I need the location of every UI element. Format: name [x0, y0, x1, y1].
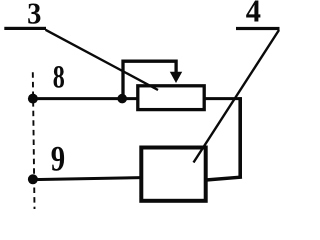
wire 9	[33, 178, 141, 180]
wire from resistor 3 right terminal to right bus	[205, 97, 242, 100]
wiper feedback wire	[123, 61, 176, 97]
junction of wiper feedback on wire 8	[117, 94, 127, 104]
terminal node 9	[28, 174, 38, 184]
svg-text:4: 4	[246, 0, 262, 29]
leader line from label 4 to block	[194, 30, 280, 163]
adjustable resistor 3 (box)	[138, 86, 204, 110]
wire 8	[33, 97, 137, 100]
block 4 (box)	[141, 148, 205, 201]
wire from block 4 right terminal to right bus	[206, 177, 242, 180]
dashed boundary line	[33, 72, 35, 209]
wiper arrow head	[170, 72, 182, 83]
terminal node 8	[28, 94, 38, 104]
svg-text:8: 8	[53, 59, 65, 96]
svg-text:9: 9	[51, 140, 65, 180]
underline of label 4	[236, 27, 280, 30]
right bus vertical wire	[238, 97, 242, 177]
leader line from label 3 to resistor	[46, 30, 159, 90]
svg-text:3: 3	[27, 0, 41, 31]
underline of label 3	[4, 27, 46, 30]
